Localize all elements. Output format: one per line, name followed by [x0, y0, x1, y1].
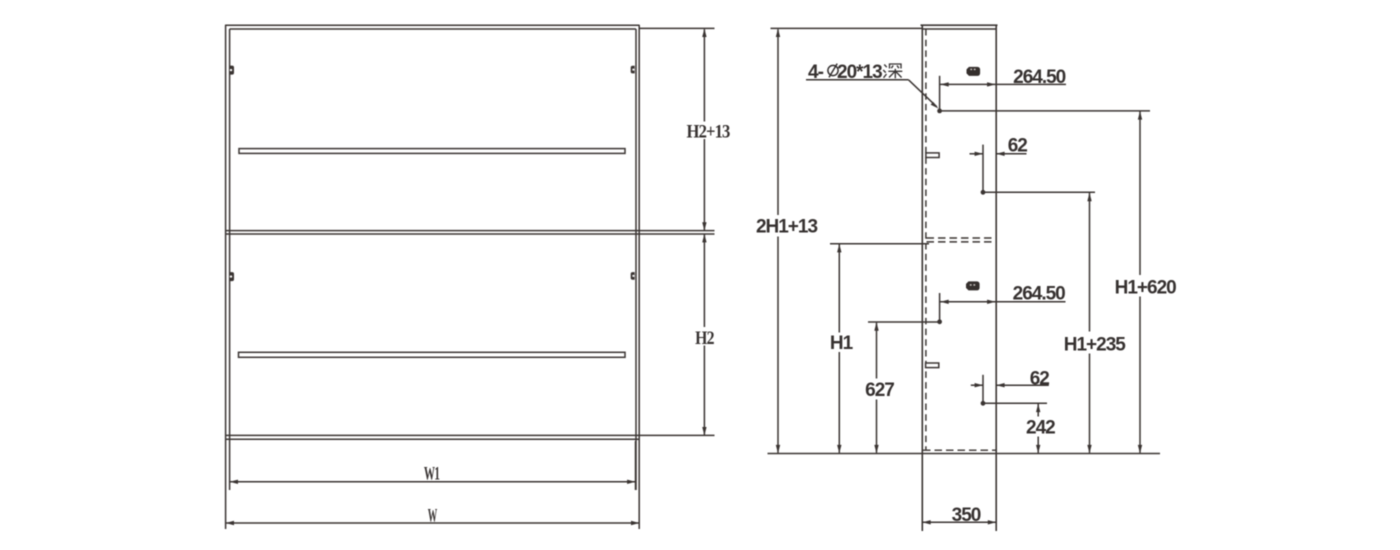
svg-text:242: 242	[1026, 417, 1055, 438]
dimension H1+620 line upper segment	[1139, 112, 1141, 276]
side view: back edge (left, solid)	[921, 25, 923, 531]
dimension 242 line upper segment	[1037, 404, 1039, 417]
front view: upper shelf	[239, 149, 625, 154]
dimension 264.50 lower line with tail	[940, 301, 1066, 303]
arrow 264.50 upper right	[987, 82, 995, 86]
dimension W1 line	[230, 481, 636, 483]
svg-text:H2: H2	[695, 328, 714, 349]
phi symbol	[828, 64, 838, 78]
svg-text:4-: 4-	[808, 62, 824, 83]
H1+235 reference line from second hole	[983, 191, 1095, 193]
leader arrowhead	[931, 102, 939, 109]
upper 62 hole center tick	[982, 145, 984, 192]
dimension 62 lower: right tail	[996, 384, 1049, 386]
arrow H2 top (up)	[702, 234, 706, 242]
arrow 62 lower left (points right)	[975, 383, 983, 387]
lower-left hole center dot	[937, 319, 942, 324]
side view: bottom dashed line	[923, 449, 996, 451]
dimension H2+13 line upper segment	[703, 29, 705, 121]
dimension H2+13 line lower segment	[703, 139, 705, 230]
dimension 627 reference line to lower hole	[868, 321, 940, 323]
arrow 2H1+13 bottom (down)	[776, 445, 780, 453]
arrow 264.50 lower left	[940, 300, 948, 304]
svg-text:H1: H1	[830, 333, 854, 354]
dimension H1 reference line at divider	[830, 243, 929, 245]
arrow 242 top (up)	[1036, 404, 1040, 412]
svg-text:H1+620: H1+620	[1115, 277, 1177, 298]
arrow W right	[631, 521, 639, 525]
side view: front edge (right)	[995, 25, 997, 531]
arrow H1+235 top (up)	[1087, 193, 1091, 201]
dimension H1 line lower segment	[838, 352, 840, 453]
lower-right hole center dot	[981, 401, 986, 406]
side view: shelf pin lower	[926, 363, 939, 368]
svg-text:20*13: 20*13	[837, 62, 882, 83]
front view: middle divider upper line with extension	[226, 230, 715, 232]
dimension H1 line upper segment	[838, 244, 840, 332]
front view: shelf pin bracket upper-right	[631, 66, 635, 74]
arrow H1+235 bottom (down)	[1087, 445, 1091, 453]
arrow 62 upper right (points left)	[996, 152, 1004, 156]
arrow W1 right	[627, 480, 635, 484]
svg-text:62: 62	[1030, 369, 1050, 390]
dimension H1+620 line lower segment	[1139, 297, 1141, 453]
dimension 627 line lower segment	[876, 400, 878, 453]
arrow 350 right	[988, 520, 996, 524]
arrow H1+620 top (up)	[1138, 111, 1142, 119]
leader diagonal line	[909, 80, 937, 107]
side view: top extension line to 2H1+13	[771, 27, 923, 29]
dimension W1 right extension line	[635, 441, 637, 490]
lower-left hole center tick	[939, 293, 941, 321]
side view: oblong handle hole upper	[967, 67, 981, 76]
side view: back panel dashed line	[925, 29, 927, 451]
upper hole center tick	[939, 76, 941, 111]
svg-text:H2+13: H2+13	[687, 122, 730, 143]
arrow 264.50 upper left	[940, 82, 948, 86]
dimension 2H1+13 line lower segment	[777, 237, 779, 453]
side view: shelf pin upper	[926, 153, 939, 158]
front view: shelf pin bracket lower-right	[631, 272, 635, 280]
arrow 62 upper left (points right)	[975, 152, 983, 156]
arrow 62 lower right (points left)	[996, 383, 1004, 387]
svg-text:350: 350	[952, 505, 981, 526]
svg-text:2H1+13: 2H1+13	[756, 217, 818, 238]
arrow H2 bottom (down)	[702, 427, 706, 435]
dimension 350 line	[922, 521, 996, 523]
svg-text:627: 627	[865, 380, 894, 401]
svg-text:62: 62	[1008, 135, 1028, 156]
dimension H2 line lower segment	[703, 346, 705, 436]
baseline (bottom reference line)	[768, 453, 1161, 455]
dimension W line	[226, 522, 640, 524]
front view: right side panel outer edge	[638, 25, 640, 529]
front view: bottom panel lower line	[226, 438, 640, 440]
svg-text:W1: W1	[424, 464, 440, 485]
arrow 627 top (up)	[874, 322, 878, 330]
front view: lower shelf	[239, 352, 626, 357]
svg-text:H1+235: H1+235	[1064, 335, 1127, 356]
arrow 350 left	[922, 520, 930, 524]
dimension 627 line upper segment	[876, 323, 878, 379]
arrow H1 top (up)	[837, 244, 841, 252]
arrow H1 bottom (down)	[837, 445, 841, 453]
front view: middle divider lower line with extension	[226, 233, 715, 235]
hanzi shen (deep) drawn as strokes	[883, 64, 902, 78]
arrow H2+13 top (up)	[702, 29, 706, 37]
svg-text:264.50: 264.50	[1013, 67, 1066, 88]
dimension H2 line upper segment	[703, 234, 705, 327]
svg-text:W: W	[428, 506, 438, 527]
side view: top cap outer line	[921, 24, 998, 26]
arrow 627 bottom (down)	[874, 445, 878, 453]
front view: cabinet top cap outer line	[225, 24, 640, 26]
dimension 2H1+13 line upper segment	[777, 29, 779, 215]
dimension 62 upper: left tail	[970, 153, 984, 155]
arrow W left	[226, 521, 234, 525]
front view: bottom panel upper line with extension	[226, 434, 715, 436]
leader note 4-phi20*13 deep: underline	[806, 80, 937, 107]
svg-text:264.50: 264.50	[1013, 283, 1066, 304]
front view: cabinet top cap inner line	[230, 28, 637, 30]
arrow W1 left	[230, 480, 238, 484]
front view: shelf pin bracket lower-left	[230, 272, 234, 281]
dimension 62 lower: left tail	[971, 384, 983, 386]
arrow H2+13 bottom (down)	[702, 222, 706, 230]
arrow 242 bottom (down)	[1036, 445, 1040, 453]
second hole center dot	[981, 190, 986, 195]
arrow 264.50 lower right	[987, 300, 995, 304]
arrow H1+620 bottom (down)	[1138, 445, 1142, 453]
side view: middle divider dashed upper	[927, 237, 997, 239]
front view: left side panel outer edge	[225, 25, 227, 529]
dimension 62 upper: right tail	[996, 153, 1026, 155]
arrow 2H1+13 top (up)	[776, 29, 780, 37]
242 reference line from lower-right hole	[983, 402, 1047, 404]
side view: top cap inner line	[922, 28, 996, 30]
upper hole center dot	[937, 109, 942, 114]
dimension H1+235 line upper segment	[1089, 193, 1091, 332]
front view: top extension line to H2+13 dimension	[639, 27, 714, 29]
front view: right side panel inner edge	[635, 29, 637, 490]
side view: oblong handle hole lower	[966, 281, 980, 290]
side view: middle divider dashed lower	[927, 241, 997, 243]
H1+620 reference line from upper hole	[940, 110, 1150, 112]
front view: shelf pin bracket upper-left	[230, 66, 234, 75]
dimension 242 line lower segment	[1037, 437, 1039, 453]
lower 62 hole center tick	[982, 375, 984, 403]
front view: left side panel inner edge	[229, 29, 231, 490]
dimension H1+235 line lower segment	[1089, 354, 1091, 453]
dimension 264.50 upper line with tail	[940, 83, 1066, 85]
